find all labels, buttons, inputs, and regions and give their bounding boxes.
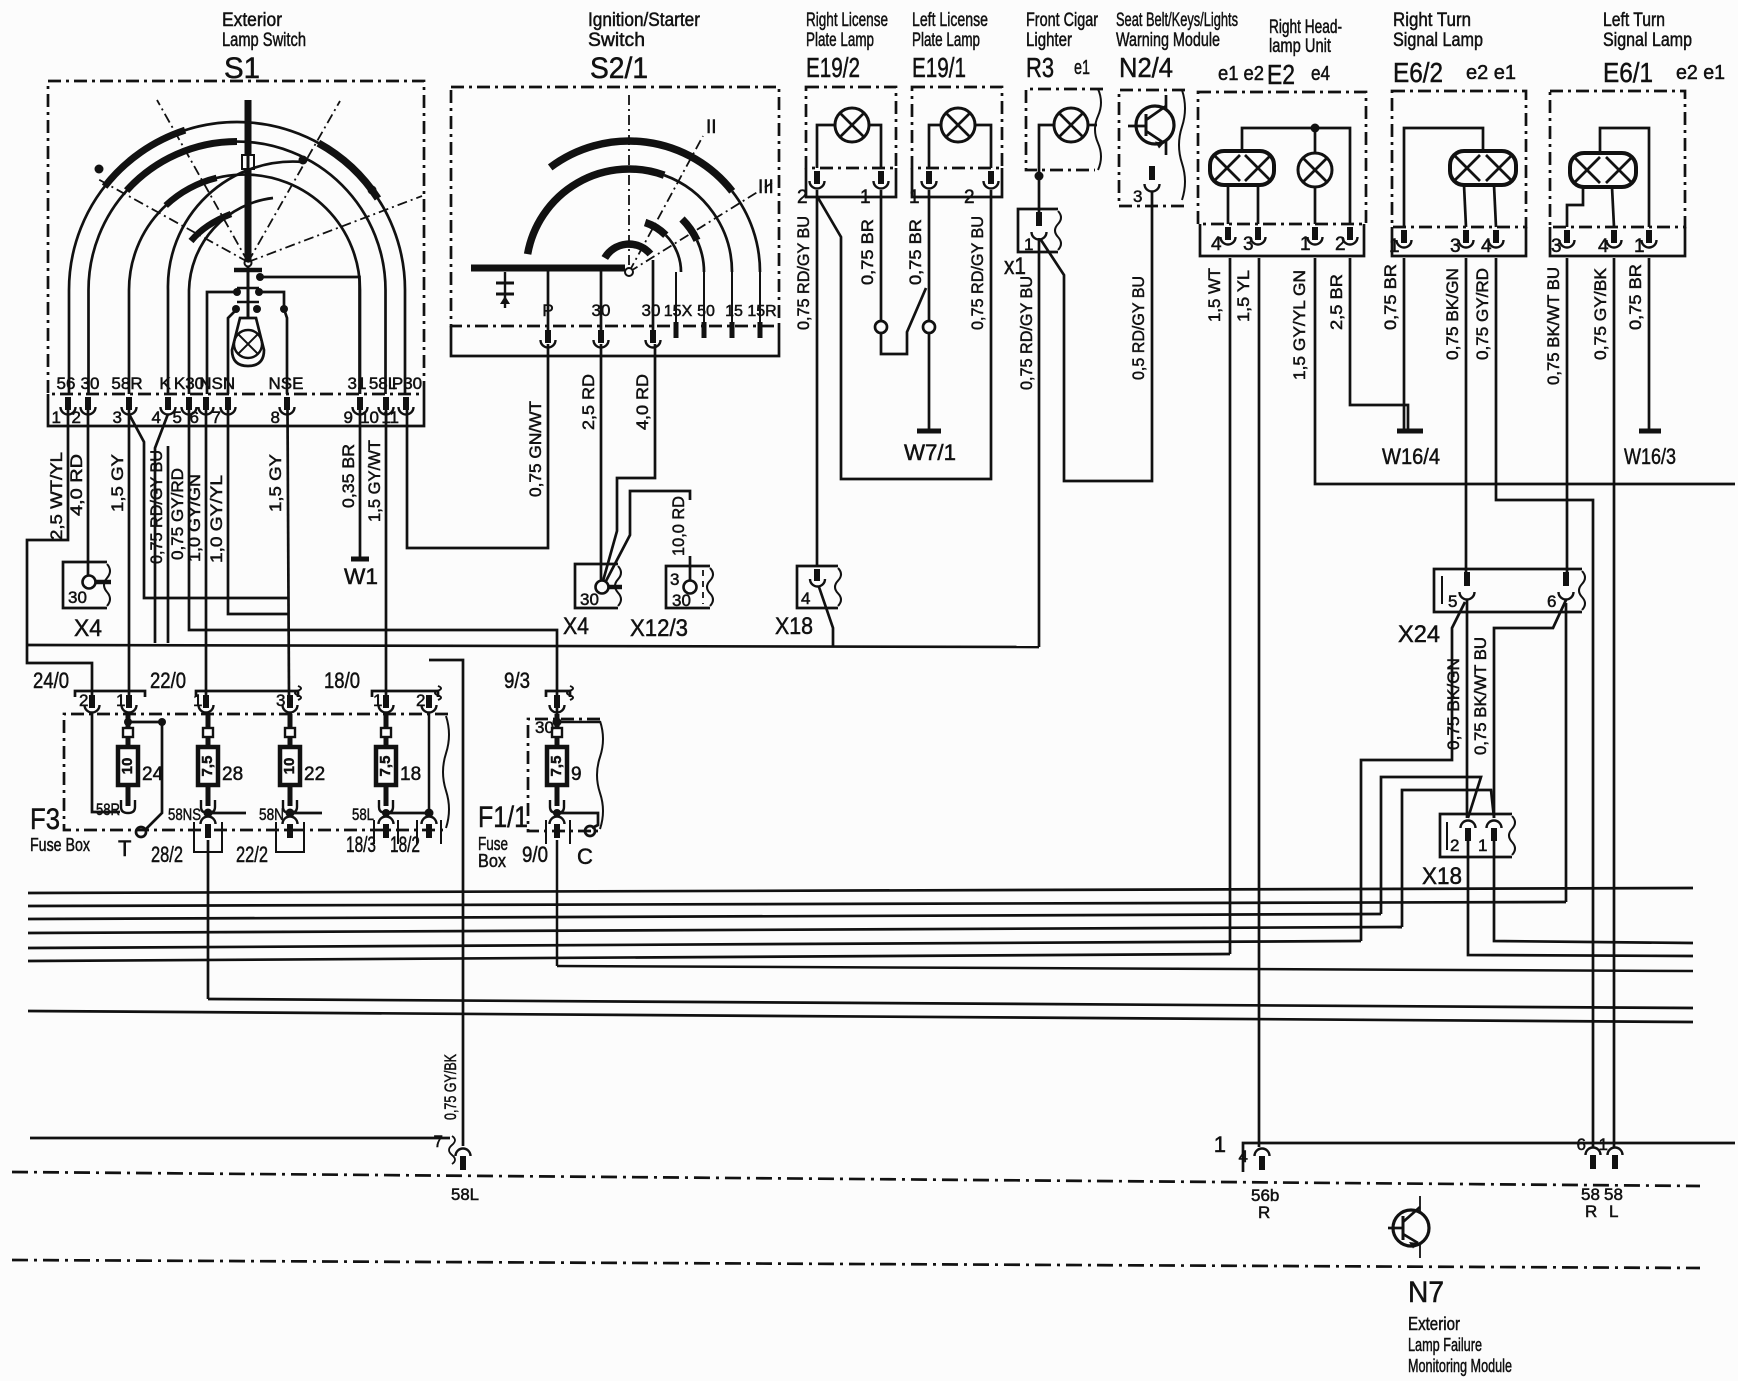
fuse 24 top branch to T (118, 718, 166, 861)
S1 check lamp bulb (232, 318, 264, 366)
S2/1 thick contact bar (471, 265, 625, 272)
svg-text:0,75 RD/GY BU: 0,75 RD/GY BU (969, 216, 987, 330)
wire X18 pin 2 output (1468, 841, 1693, 956)
svg-text:4: 4 (1239, 1147, 1248, 1166)
svg-text:lamp Unit: lamp Unit (1269, 36, 1332, 57)
svg-text:58R: 58R (111, 374, 142, 393)
S1 contact curve 5 (terminal K30) (189, 198, 273, 394)
svg-text:X4: X4 (563, 613, 589, 640)
svg-text:30: 30 (580, 590, 599, 609)
svg-text:28: 28 (222, 764, 243, 785)
fuse 24 bottom terminal 58R (96, 800, 120, 819)
fuse 22 (10A) (280, 714, 325, 813)
svg-text:1,5 YL: 1,5 YL (1235, 270, 1253, 322)
svg-text:9: 9 (571, 764, 582, 785)
wire fuse 18 to 18/0 pin 2 and down to 58L (429, 660, 463, 1146)
svg-text:Fuse Box: Fuse Box (30, 835, 90, 855)
svg-text:1: 1 (1599, 1135, 1608, 1154)
svg-text:15R: 15R (747, 303, 776, 320)
S1 contact curve 2 (terminal 30 to 58L) (89, 142, 386, 394)
svg-text:e1: e1 (1074, 57, 1090, 79)
E6/1 internal feed wire (1600, 128, 1649, 227)
S2/1 arc ring inner (605, 244, 651, 258)
svg-text:1: 1 (193, 691, 202, 710)
E2 lamp legs (1228, 185, 1258, 224)
bus line A from fuse 28 (208, 999, 1693, 1008)
S2/1 radial line III (629, 177, 774, 272)
connector X4 (middle) (563, 564, 622, 640)
connector 9/3 (504, 668, 573, 713)
svg-text:31: 31 (348, 374, 367, 393)
ignition/starter switch S2/1 title (588, 10, 701, 85)
wire 1,5 GY from S1 pin 3 (109, 410, 129, 697)
E19/1 pin 2 (964, 171, 999, 208)
svg-text:7: 7 (212, 408, 221, 427)
connector 9/0 (522, 817, 570, 868)
wire 0,75 BR from E6/1 pin 1 to ground W16/3 (1627, 258, 1649, 429)
svg-text:0,75 GY/RD: 0,75 GY/RD (1474, 268, 1492, 360)
R3 connector x1 box (1004, 209, 1061, 280)
svg-text:0,75 BR: 0,75 BR (859, 219, 877, 285)
svg-text:F3: F3 (30, 803, 60, 836)
svg-text:X4: X4 (74, 615, 102, 642)
svg-text:Left Turn: Left Turn (1603, 10, 1665, 31)
wire R3 to N2/4 link (1041, 192, 1152, 481)
S2/1 terminal 30a (592, 268, 611, 330)
E2 pin 1 (1300, 227, 1323, 255)
E6/2 box (1392, 91, 1526, 256)
svg-text:0,35 BR: 0,35 BR (340, 444, 358, 508)
svg-text:58NS: 58NS (168, 805, 201, 824)
E2 box (1198, 92, 1366, 256)
svg-text:2: 2 (1335, 234, 1346, 255)
svg-text:III: III (758, 177, 774, 198)
svg-text:Right License: Right License (806, 10, 888, 31)
svg-text:4: 4 (152, 408, 161, 427)
S1 pin row (61, 397, 414, 415)
svg-text:10,0 RD: 10,0 RD (670, 496, 688, 556)
svg-text:W1: W1 (344, 564, 378, 589)
svg-text:Monitoring Module: Monitoring Module (1408, 1356, 1512, 1376)
svg-text:e4: e4 (1311, 63, 1330, 85)
ground W7/1 (904, 431, 956, 465)
wire fuse 9 output down (556, 840, 559, 966)
E6/2 pin 1 (1389, 230, 1412, 257)
svg-text:Exterior: Exterior (222, 10, 283, 31)
svg-text:4: 4 (1481, 236, 1492, 257)
S1 thick contact arc inner left b (191, 214, 231, 241)
ground W16/4 (1382, 431, 1440, 469)
svg-text:6: 6 (1577, 1135, 1586, 1154)
svg-text:8: 8 (271, 408, 280, 427)
svg-text:e2 e1: e2 e1 (1676, 62, 1725, 84)
S1 thick contact arc second left (127, 141, 237, 190)
svg-text:3: 3 (113, 408, 122, 427)
fuse 28 bottom terminal 58NS (168, 805, 246, 824)
svg-text:5: 5 (173, 408, 182, 427)
S1 terminal labels (57, 374, 423, 393)
E6/2 pin 4 (1481, 230, 1504, 257)
E6/2 lamp (1450, 151, 1516, 185)
svg-text:15: 15 (725, 303, 743, 320)
connector X18 (right) box (1422, 814, 1515, 890)
S2/1 arc ring 2 (528, 169, 732, 272)
svg-text:Signal Lamp: Signal Lamp (1603, 30, 1692, 51)
svg-text:Ignition/Starter: Ignition/Starter (588, 10, 701, 31)
S1 contact curve 4 (terminal K) (168, 156, 308, 395)
svg-text:30: 30 (592, 301, 611, 320)
fuse 18 bottom terminal 58L (352, 805, 434, 824)
svg-text:0,75 GN/WT: 0,75 GN/WT (527, 401, 545, 497)
svg-text:Signal Lamp: Signal Lamp (1393, 30, 1483, 51)
X18 right pin 1 (1478, 821, 1502, 855)
E2 internal feed wire (1242, 124, 1350, 225)
right turn signal lamp E6/2 title (1393, 10, 1516, 88)
wire 1,5 GY/YL GN from E2 pin 1 (1291, 258, 1735, 484)
svg-text:5: 5 (1448, 592, 1457, 611)
svg-text:0,75 RD/GY BU: 0,75 RD/GY BU (795, 216, 813, 330)
R3 bulb (1039, 108, 1097, 173)
svg-text:30: 30 (642, 301, 661, 320)
svg-text:7,5: 7,5 (548, 756, 565, 777)
wire 0,75 BR from E19/2 pin 1 (859, 190, 926, 354)
N2/4 transistor (1128, 95, 1174, 155)
svg-text:18/0: 18/0 (324, 668, 360, 693)
svg-text:2,5 BR: 2,5 BR (1328, 274, 1346, 330)
svg-text:0,75 GY/BK: 0,75 GY/BK (442, 1054, 460, 1120)
wire 1,5 YL from E2 pin 3 to N7 pin 4 (1235, 258, 1259, 1147)
E19/2 pin 1 (860, 171, 889, 208)
exterior lamp switch S1 box (48, 81, 424, 426)
seat belt/keys/lights warning module N2/4 title (1116, 10, 1238, 83)
fuse 24 (10A) (118, 714, 164, 813)
S1 lamp check assembly (232, 266, 288, 318)
svg-text:2: 2 (79, 691, 88, 710)
S2/1 radial line II (629, 117, 717, 272)
svg-text:4,0 RD: 4,0 RD (634, 374, 652, 430)
wire 1,5 GY from S1 pin 8 (267, 410, 289, 697)
svg-text:22/2: 22/2 (236, 842, 268, 867)
svg-text:2: 2 (797, 187, 808, 208)
svg-text:3: 3 (1133, 187, 1142, 206)
svg-text:e2 e1: e2 e1 (1466, 62, 1516, 84)
svg-text:2: 2 (964, 187, 975, 208)
wire 0,75 RD/GY BU from R3 x1 down (1018, 238, 1039, 647)
svg-text:W16/3: W16/3 (1624, 444, 1676, 469)
svg-text:3: 3 (276, 691, 285, 710)
svg-text:E2: E2 (1267, 59, 1295, 90)
svg-text:18/2: 18/2 (390, 832, 420, 857)
svg-text:Plate Lamp: Plate Lamp (912, 30, 980, 51)
svg-text:24/0: 24/0 (33, 668, 69, 693)
svg-text:7,5: 7,5 (199, 756, 216, 777)
svg-text:Exterior: Exterior (1408, 1314, 1460, 1334)
svg-text:Lamp Failure: Lamp Failure (1408, 1335, 1482, 1355)
wire link E19/2 pin 2 to E19/1 pin 2 (817, 190, 991, 479)
svg-text:1: 1 (116, 691, 125, 710)
svg-text:e1 e2: e1 e2 (1218, 63, 1264, 85)
svg-text:N: N (223, 374, 235, 393)
E6/1 pin 3 (1551, 230, 1575, 257)
svg-text:0,75 RD/GY BU: 0,75 RD/GY BU (1018, 276, 1036, 390)
exterior lamp switch S1 title (222, 10, 306, 85)
S1 internal wire to pin 9 (260, 277, 360, 394)
svg-text:0,75 BK/GN: 0,75 BK/GN (1444, 268, 1462, 360)
svg-text:Plate Lamp: Plate Lamp (806, 30, 874, 51)
svg-text:X18: X18 (1422, 863, 1462, 890)
svg-text:50: 50 (697, 303, 715, 320)
svg-text:6: 6 (190, 408, 199, 427)
svg-text:P: P (542, 301, 553, 320)
E6/1 lamp legs (1567, 187, 1614, 227)
S2/1 terminal P (542, 268, 553, 330)
N7 terminal 58L (pin 7) (451, 1149, 479, 1204)
svg-text:30: 30 (68, 588, 87, 607)
svg-text:1: 1 (1634, 236, 1645, 257)
right headlamp unit E2 title (1218, 17, 1342, 90)
wire fuse 28 output down (207, 840, 210, 999)
connector 28/2 (151, 817, 222, 868)
svg-text:7: 7 (434, 1132, 443, 1151)
svg-text:22/0: 22/0 (150, 668, 186, 693)
svg-text:T: T (118, 836, 131, 861)
fuse 9 top terminal 30 (535, 718, 600, 738)
fuse 22 bottom terminal 58N (259, 805, 322, 824)
S1 radial dashed lines (96, 100, 422, 262)
svg-text:1: 1 (1300, 234, 1311, 255)
svg-text:4,0 RD: 4,0 RD (68, 454, 86, 516)
fuse 9 (7,5A) (547, 714, 582, 813)
wire 0,75 BR from E6/2 pin 1 to ground W16/4 (1382, 258, 1404, 429)
svg-text:S2/1: S2/1 (590, 52, 648, 85)
N7 transistor symbol (1388, 1196, 1429, 1258)
X24 pin 6 (1547, 572, 1574, 611)
svg-text:R: R (1258, 1203, 1270, 1222)
S1 internal wire to pin 7 (228, 310, 236, 394)
svg-text:1,5 GY/YL GN: 1,5 GY/YL GN (1291, 270, 1309, 380)
svg-text:56: 56 (57, 374, 76, 393)
svg-text:58L: 58L (451, 1185, 479, 1204)
wire 0,75 RD/GY BU from S1 pin 4 (148, 414, 168, 643)
svg-text:1,5 GY: 1,5 GY (267, 454, 285, 512)
connector X18 (left) (775, 566, 841, 640)
svg-text:30: 30 (535, 718, 554, 737)
svg-text:9/0: 9/0 (522, 842, 548, 867)
left turn signal lamp E6/1 title (1603, 10, 1725, 88)
svg-text:0,75 BK/GN: 0,75 BK/GN (1445, 658, 1463, 750)
wire 2,5 BR from E2 pin 2 to ground W16/4 (1328, 258, 1408, 429)
svg-text:18/3: 18/3 (346, 832, 376, 857)
E2 pin 2 (1335, 227, 1358, 255)
svg-text:30: 30 (672, 591, 691, 610)
svg-text:R: R (1585, 1202, 1597, 1221)
S2/1 pivot (625, 268, 633, 276)
S1 internal wire to pin 8 (259, 292, 287, 394)
wire 0,5 RD/GY BU from N2/4 pin 3 (1130, 276, 1148, 380)
connector 18/0 (324, 668, 441, 713)
svg-text:1: 1 (52, 408, 61, 427)
svg-text:4: 4 (801, 589, 810, 608)
connector 24/0 (33, 668, 145, 713)
wire 0,75 BK/WT BU from E6/1 pin 3 to X24 pin 6 (1545, 258, 1567, 578)
E2 twin-filament lamp (1210, 151, 1274, 185)
E2 pin 3 (1243, 227, 1266, 255)
wire 0,75 GY/RD from E6/2 pin 4 to N7 pin 6 (1474, 258, 1593, 1147)
wire 0,75 BK/GN X24 pin 5 to X18 pin 2 (1445, 600, 1467, 818)
svg-text:1: 1 (909, 187, 920, 208)
S1 thick contact arc inner left a (166, 178, 217, 206)
S1 pin numbers (52, 408, 399, 427)
S2/1 terminals 15X 50 15 15R (664, 272, 777, 338)
N7 connector bracket left (30, 1132, 455, 1164)
svg-text:W7/1: W7/1 (904, 440, 956, 465)
wire 4,0 RD from S2/1 terminal 30 (603, 344, 655, 581)
svg-text:3: 3 (1551, 236, 1562, 257)
E19/2 bulb (817, 108, 881, 168)
svg-text:0,5 RD/GY BU: 0,5 RD/GY BU (1130, 276, 1148, 380)
wire 10,0 RD to X12/3 (606, 491, 690, 581)
svg-text:F1/1: F1/1 (478, 801, 528, 834)
wire 4,0 RD from S1 pin 2 (68, 410, 88, 575)
svg-text:9: 9 (344, 408, 353, 427)
wire 0,75 BK/GN from E6/2 pin 3 to X24 pin 5 (1444, 258, 1466, 578)
svg-text:0,75 GY/BK: 0,75 GY/BK (1592, 268, 1610, 360)
module boundary dash-dot line 2 (12, 1260, 1700, 1268)
E6/1 pin 4 (1598, 230, 1622, 257)
wire 0,35 BR from S1 pin 9 (340, 410, 360, 557)
svg-text:Right Turn: Right Turn (1393, 10, 1471, 31)
fuse 9 bottom terminal C (553, 809, 598, 869)
svg-text:9/3: 9/3 (504, 668, 530, 693)
connector 18/3 (346, 817, 398, 858)
svg-text:2,5 WT/YL: 2,5 WT/YL (48, 452, 66, 540)
wire 0,75 GN/WT from S1 pin 11 to S2/1 P (407, 344, 548, 548)
svg-text:11: 11 (381, 408, 399, 427)
svg-text:Lamp Switch: Lamp Switch (222, 30, 306, 51)
wire 0,75 GY/RD from S1 pin 5 (169, 410, 557, 721)
svg-text:3: 3 (1243, 234, 1254, 255)
X24 pin 5 (1448, 572, 1475, 611)
wire 0,75 BK/WT BU X24 pin 6 to X18 pin 1 (1472, 600, 1566, 818)
E19/2 box (806, 87, 896, 197)
R3 connector x1 pin 1 (1024, 212, 1047, 254)
svg-text:Warning Module: Warning Module (1116, 30, 1220, 51)
svg-text:1,0 GY/GN: 1,0 GY/GN (186, 474, 204, 562)
E19/1 box (912, 87, 1002, 197)
svg-text:2,5 RD: 2,5 RD (580, 374, 598, 430)
svg-text:0,75 BR: 0,75 BR (1627, 264, 1645, 330)
X18 right pin 2 (1450, 821, 1476, 855)
svg-text:6: 6 (1547, 592, 1556, 611)
svg-text:Left License: Left License (912, 10, 988, 31)
svg-text:3: 3 (670, 570, 679, 589)
svg-text:10: 10 (119, 758, 136, 775)
front cigar lighter R3 title (1026, 10, 1099, 83)
S2/1 key symbol (496, 272, 514, 308)
fuse 18 (7,5A) (376, 714, 421, 813)
svg-text:W16/4: W16/4 (1382, 444, 1440, 469)
svg-text:15X: 15X (664, 303, 693, 320)
svg-text:10: 10 (281, 758, 298, 775)
ignition switch S2/1 box (451, 87, 779, 356)
svg-text:R3: R3 (1026, 52, 1054, 83)
fuse box F1/1 outline (478, 719, 603, 871)
svg-text:N2/4: N2/4 (1119, 52, 1173, 83)
svg-text:10: 10 (360, 408, 379, 427)
ground W1 (344, 559, 378, 589)
E6/1 pin 1 (1634, 230, 1657, 257)
S2/1 arc ring 4 (645, 223, 681, 273)
E19/1 bulb (929, 108, 991, 168)
E2 round lamp (1298, 153, 1332, 224)
S1 thick contact arc outer left (105, 130, 186, 186)
wire X18 pin 4 to trunk (819, 587, 833, 647)
svg-text:K: K (159, 374, 171, 393)
svg-text:N7: N7 (1408, 1276, 1444, 1309)
svg-text:0,75 BR: 0,75 BR (1382, 264, 1400, 330)
svg-text:Right Head-: Right Head- (1269, 17, 1342, 38)
S2/1 terminal 30b (642, 260, 661, 330)
svg-text:Seat Belt/Keys/Lights: Seat Belt/Keys/Lights (1116, 10, 1238, 31)
left license plate lamp E19/1 title (912, 10, 988, 83)
E6/2 pin 3 (1450, 230, 1474, 257)
svg-text:E19/1: E19/1 (912, 52, 966, 83)
svg-text:1: 1 (373, 691, 382, 710)
svg-text:0,75 BK/WT BU: 0,75 BK/WT BU (1472, 637, 1490, 755)
bus line 1 (28, 888, 1693, 893)
svg-text:1: 1 (860, 187, 871, 208)
wire 2,5 RD from S2/1 terminal 30 (580, 344, 601, 581)
svg-text:30: 30 (81, 374, 100, 393)
svg-text:1: 1 (1478, 836, 1487, 855)
S1 thick contact arc outer right (318, 143, 378, 198)
fuse box F3 outline (30, 714, 449, 855)
svg-text:4: 4 (1598, 236, 1609, 257)
svg-text:Switch: Switch (588, 30, 645, 51)
fuse 28 (7,5A) (198, 714, 243, 813)
svg-text:0,75 BK/WT BU: 0,75 BK/WT BU (1545, 267, 1563, 385)
svg-text:1,5 GY: 1,5 GY (109, 454, 127, 512)
bus line 3 to X18 pin 2 (28, 777, 1481, 919)
svg-text:0,75 RD/GY BU: 0,75 RD/GY BU (148, 450, 166, 564)
connector X12/3 (630, 566, 713, 642)
svg-text:3: 3 (1450, 236, 1461, 257)
svg-text:II: II (706, 117, 717, 138)
N7 connector bracket right (1214, 1132, 1735, 1172)
svg-text:1,5 WT: 1,5 WT (1206, 268, 1224, 322)
E6/2 lamp legs (1464, 185, 1496, 227)
svg-text:E6/2: E6/2 (1393, 57, 1443, 88)
bus line C from fuse 9 (557, 966, 1693, 971)
svg-text:2: 2 (72, 408, 81, 427)
N7 terminal 58 R (pin 6) (1577, 1135, 1601, 1221)
svg-text:0,75 GY/RD: 0,75 GY/RD (169, 468, 187, 560)
wire 0,75 GY/BK from E6/1 pin 4 to N7 pin 1 (1592, 258, 1614, 1147)
wire 2,5 WT/YL from S1 pin 1 (27, 410, 92, 695)
connector X24 box (1398, 569, 1585, 648)
E19/2 pin 2 (797, 171, 825, 208)
R3 box (1026, 89, 1103, 170)
wire 1,5 GY/WT from S1 pin 10 (366, 410, 386, 697)
S1 contact curve 3 (terminal 58R to 31) (129, 175, 360, 394)
svg-text:NS: NS (199, 374, 223, 393)
svg-text:1,5 GY/WT: 1,5 GY/WT (366, 440, 384, 522)
svg-text:2: 2 (416, 691, 425, 710)
wire X18 pin 1 output (1494, 841, 1693, 943)
svg-text:4: 4 (1211, 234, 1222, 255)
connector X4 (left) (63, 562, 111, 642)
S1 contact dots (95, 165, 377, 195)
